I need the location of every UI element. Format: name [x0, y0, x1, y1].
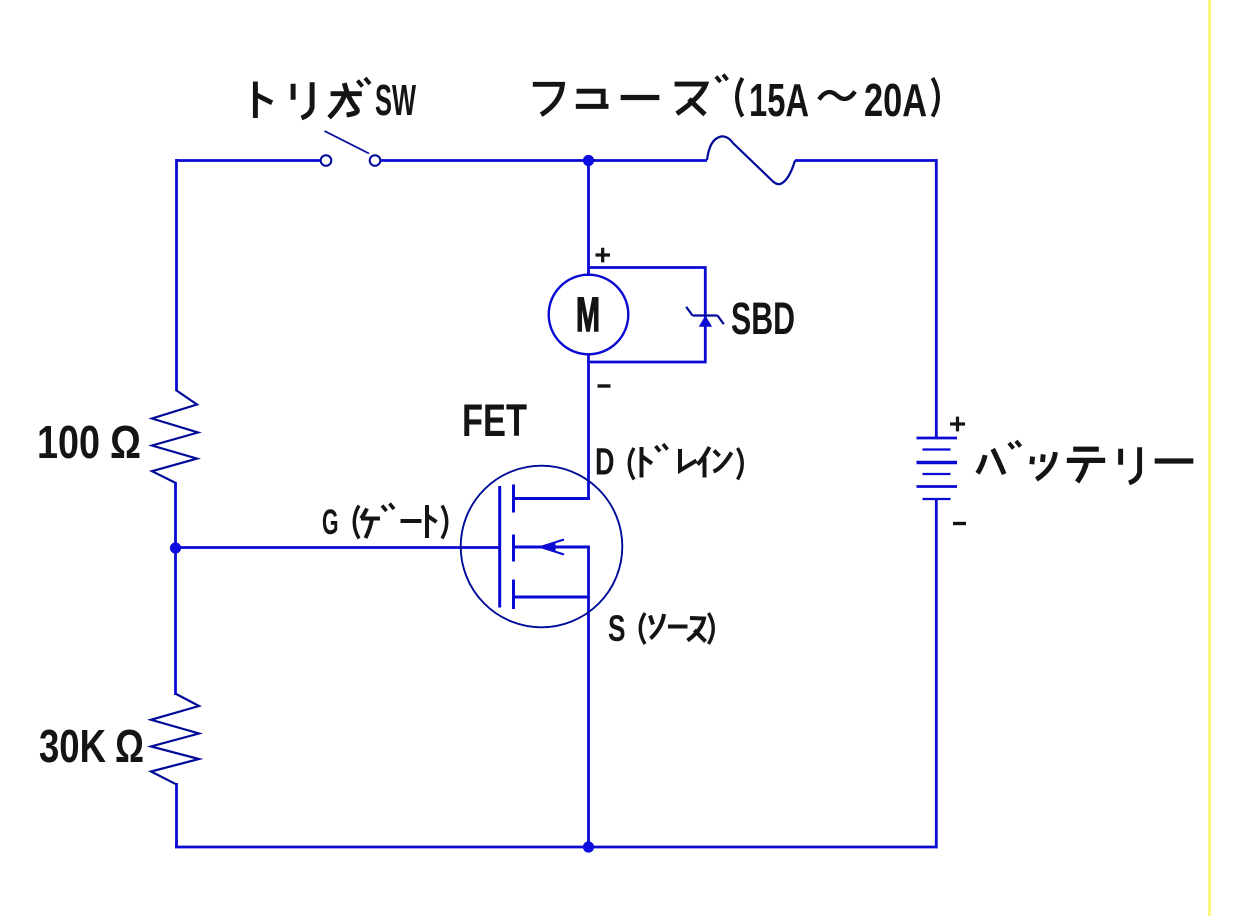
label: battery katakana long bar [1155, 460, 1194, 462]
battery plate long 2 [917, 461, 958, 464]
wire top-left horizontal [176, 159, 321, 162]
label: source katakana halfwidth so [650, 614, 664, 639]
label: gate open paren [354, 506, 359, 539]
label: source katakana long bar [668, 625, 688, 629]
label: trigger SW katakana ka [329, 83, 362, 118]
switch arm (open) [325, 131, 370, 154]
svg-text:D: D [595, 442, 615, 484]
motor plus mark [596, 248, 611, 263]
label: fuse katakana su [675, 84, 706, 114]
label: drain katakana halfwidth to+dakuten [642, 447, 653, 478]
label: gate katakana halfwidth ke [361, 509, 380, 539]
svg-text:Ω: Ω [110, 416, 141, 468]
label: drain katakana halfwidth i [698, 447, 710, 478]
svg-text:Ω: Ω [115, 720, 144, 772]
FET body arrow (points left) [541, 540, 565, 555]
wire right rail upper [935, 159, 938, 438]
battery plus mark [950, 417, 965, 432]
label: drain open paren [629, 448, 634, 480]
label: fuse katakana small yu [576, 91, 609, 106]
wire left rail upper [175, 159, 178, 391]
label: source katakana halfwidth su [688, 618, 706, 642]
fuse squiggle [707, 136, 795, 184]
yellow page edge line [1208, 0, 1211, 916]
label: trigger SW katakana to [255, 82, 272, 118]
FET circle outline [461, 466, 623, 628]
label: fuse close paren [933, 78, 939, 117]
FET channel dash middle [512, 535, 515, 562]
label: source open paren [640, 613, 645, 644]
label: gate dakuten [382, 504, 394, 512]
svg-text:G: G [322, 503, 339, 542]
svg-text:SW: SW [375, 76, 416, 125]
resistor R1 100ohm zigzag [152, 390, 198, 483]
label: gate katakana halfwidth to [427, 505, 437, 538]
wire right rail lower [935, 499, 938, 848]
FET channel dash top [512, 485, 515, 513]
svg-text:SBD: SBD [731, 293, 795, 344]
label: fuse wave dash [819, 92, 855, 100]
battery plate short 1 [923, 448, 951, 450]
label: battery katakana small tsu [1032, 452, 1056, 479]
label: battery dakuten on ha [1009, 441, 1021, 449]
wire motor to FET drain [587, 354, 590, 499]
wire bottom horizontal [175, 846, 938, 849]
label: drain close paren [738, 448, 743, 480]
battery minus mark [953, 522, 966, 525]
SBD schottky diode: cathode bar with hooks [686, 307, 724, 324]
label: fuse katakana fu [533, 84, 563, 114]
resistor R2 30Kohm zigzag [151, 694, 199, 784]
label: fuse dakuten on su [716, 75, 728, 83]
FET channel dash bottom [512, 580, 515, 610]
switch contact circle right [370, 155, 381, 166]
FET source stub [514, 596, 591, 599]
FET gate bar [498, 486, 501, 608]
wire FET source vertical to bottom [587, 547, 590, 848]
wire top-right horizontal after fuse [795, 159, 938, 162]
battery plate short 3 [923, 498, 951, 500]
battery plate long 1 [917, 437, 958, 440]
svg-text:S: S [608, 608, 626, 649]
FET drain stub [514, 497, 591, 500]
wire left rail middle [174, 482, 177, 695]
junction node top [583, 155, 594, 166]
svg-text:30K: 30K [39, 720, 106, 772]
label: fuse katakana long bar [621, 97, 660, 99]
motor circle [549, 275, 629, 355]
label: trigger SW katakana ri [293, 82, 312, 118]
label: battery katakana ha [978, 449, 1005, 474]
wire top-middle horizontal [380, 159, 707, 162]
SBD anode triangle [700, 317, 712, 327]
label: gate close paren [442, 506, 447, 539]
wire gate horizontal [175, 546, 500, 549]
label: battery katakana te [1067, 449, 1105, 482]
svg-text:100: 100 [37, 416, 100, 468]
battery plate long 3 [917, 485, 958, 488]
label: fuse open paren [737, 78, 743, 117]
motor minus mark [598, 384, 611, 387]
battery plate short 2 [923, 473, 951, 475]
label: drain katakana halfwidth re [680, 449, 697, 471]
svg-text:FET: FET [462, 395, 527, 446]
label: source close paren [709, 613, 714, 644]
label: gate katakana long bar [401, 519, 422, 523]
wire left rail lower [175, 783, 178, 848]
svg-text:20A: 20A [864, 74, 927, 126]
svg-text:M: M [576, 289, 600, 342]
svg-text:15A: 15A [749, 74, 809, 126]
junction node bottom [583, 841, 594, 852]
label: drain katakana halfwidth n [714, 451, 732, 472]
switch contact circle left [321, 155, 332, 166]
FET body line [514, 546, 591, 549]
label: battery katakana ri [1121, 447, 1140, 483]
label: trigger SW dakuten on ka [358, 78, 371, 87]
junction node gate-left [170, 542, 181, 553]
wire motor-SBD branch (top, right, bottom) [588, 268, 705, 363]
wire center vertical junction to motor [587, 160, 590, 276]
